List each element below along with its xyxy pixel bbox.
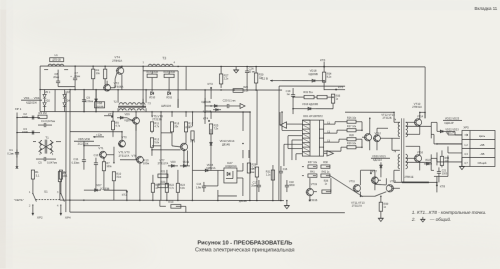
transistor VT19 <box>306 189 314 196</box>
label VT19 <box>311 182 318 186</box>
transformer T4 core <box>401 118 403 182</box>
junction at 84,112 <box>83 111 85 113</box>
resistor R30 <box>254 73 257 83</box>
transformer T3 <box>142 56 175 66</box>
label VT7 type <box>158 161 169 165</box>
svg-text:КТ8: КТ8 <box>440 184 445 188</box>
junction at 205,90 <box>204 89 206 91</box>
svg-text:2Т3117А: 2Т3117А <box>352 204 363 208</box>
svg-text:R24: R24 <box>185 126 190 129</box>
label КД202Ж <box>21 100 42 105</box>
svg-text:R21: R21 <box>161 169 166 173</box>
wire IC out3 <box>324 139 347 142</box>
resistor R18 <box>151 183 154 192</box>
wire KT8 drop <box>436 182 438 192</box>
junction at 419.8,112 <box>419 112 421 114</box>
wire VD13 lower <box>192 150 211 171</box>
label R31 <box>266 171 271 174</box>
capacitor C17 <box>251 180 261 192</box>
label R28t <box>243 86 248 89</box>
ground fb <box>284 206 289 209</box>
junction at 310,200.5 <box>309 200 311 202</box>
label R24 <box>185 126 190 129</box>
label R39 value <box>383 206 386 209</box>
wire bridge inner verticals <box>45 90 65 112</box>
resistor R42 <box>321 174 330 177</box>
resistor R20 <box>158 184 168 188</box>
transformer T1 <box>38 136 53 157</box>
junction at 140,200.5 <box>139 200 141 202</box>
wire mid v250 <box>249 112 251 200</box>
wire VT19 c <box>309 178 311 200</box>
label VT9 <box>190 139 196 143</box>
diode VD9 <box>168 160 178 168</box>
svg-text:VD22,VD23: VD22,VD23 <box>445 117 460 121</box>
label R16 <box>174 121 179 125</box>
wire misc2 <box>95 172 97 190</box>
capacitor C11 <box>72 152 86 170</box>
label R7 value <box>106 165 112 168</box>
wire rail112 right <box>345 111 394 113</box>
transistor VT11 <box>353 185 361 192</box>
label R20 <box>161 180 166 184</box>
wire T4 primary bot <box>394 170 400 182</box>
transformer T4 primary upper <box>393 118 400 136</box>
transistor VT17 <box>371 177 378 184</box>
svg-text:1500: 1500 <box>22 130 28 134</box>
test point KT8 <box>436 184 445 188</box>
label R43 <box>250 168 255 171</box>
connector XP4 <box>60 205 71 220</box>
capacitor C19 <box>286 88 296 104</box>
junction at 75,90 <box>74 89 76 91</box>
ground right driver <box>378 218 383 221</box>
junction at 70,90 <box>69 89 71 91</box>
svg-text:1000: 1000 <box>442 172 448 175</box>
test point KT2 <box>122 191 128 197</box>
capacitor C13 <box>94 153 99 172</box>
svg-text:R26 10к: R26 10к <box>347 117 357 120</box>
svg-text:0,33мк: 0,33мк <box>72 161 81 164</box>
junction at 273,200.5 <box>272 200 274 202</box>
label Д814Б <box>222 142 230 146</box>
diode VD17 <box>203 109 221 114</box>
wire output bottom rail <box>394 176 437 186</box>
svg-text:4,7: 4,7 <box>464 161 468 165</box>
wire KT6 stub <box>323 62 325 67</box>
svg-text:6800: 6800 <box>289 184 295 187</box>
label R34 value <box>327 76 332 79</box>
svg-text:Схема электрическая принципиал: Схема электрическая принципиальная <box>195 247 295 253</box>
svg-text:100к: 100к <box>106 165 112 168</box>
svg-text:АОД101А: АОД101А <box>225 164 237 168</box>
title line 1 <box>197 240 292 246</box>
svg-text:VD23: VD23 <box>425 160 431 162</box>
wire bridge mid vertical <box>54 90 56 112</box>
junction at 33,118 <box>32 117 34 119</box>
svg-text:"СЕТЬ": "СЕТЬ" <box>14 198 24 202</box>
resistor R36 <box>322 190 331 193</box>
svg-text:VD 1: VD 1 <box>45 91 51 94</box>
junction at 250,200.5 <box>249 200 251 202</box>
wire opto area <box>191 112 193 200</box>
junction at 152,112 <box>151 111 153 113</box>
label VT11 <box>349 179 356 183</box>
label +12в arrow <box>93 133 104 138</box>
wire center v3 <box>135 112 137 118</box>
resistor R41 <box>308 174 317 177</box>
transistor VT14 <box>414 119 422 126</box>
label R4 <box>96 68 100 72</box>
label 2Т3117А <box>119 154 130 158</box>
svg-text:R41: R41 <box>310 171 315 174</box>
wire center v11 <box>136 124 140 200</box>
svg-text:2Т312Б: 2Т312Б <box>382 116 391 120</box>
junction at 96,112 <box>95 111 97 113</box>
diode VD16 <box>201 100 221 108</box>
junction at 256,66.5 <box>255 66 257 68</box>
junction at 256,90 <box>255 89 257 91</box>
label R7 <box>106 161 110 165</box>
svg-text:Вкладка 11: Вкладка 11 <box>475 6 498 11</box>
solid winding bar <box>402 181 429 183</box>
resistor R33 <box>317 95 327 98</box>
resistor R22 <box>165 183 168 192</box>
svg-text:2ТВ41Е: 2ТВ41Е <box>404 176 413 179</box>
label R32 <box>303 90 313 94</box>
label R16 value <box>174 125 179 128</box>
wire center v9 <box>151 147 153 155</box>
resistor R10 <box>112 172 115 181</box>
diode VD2 <box>43 100 51 107</box>
label VT13 <box>390 179 397 183</box>
svg-text:С1: С1 <box>9 148 13 152</box>
junction at 113,112 <box>112 111 114 113</box>
svg-text:Х1м: Х1м <box>116 176 121 179</box>
label R40 value <box>445 160 449 163</box>
wire IC left verticals <box>280 112 296 166</box>
resistor R28r <box>347 138 356 141</box>
label R12 value <box>154 141 159 144</box>
wire IC in6 <box>288 147 302 149</box>
resistor R15 <box>164 74 174 77</box>
wire VT3 top <box>96 132 122 141</box>
junction at 105,66.5 <box>104 65 106 67</box>
svg-text:VD9: VD9 <box>125 112 131 116</box>
svg-text:КТ4: КТ4 <box>203 117 208 121</box>
junction at 221,90 <box>220 89 222 91</box>
wire left boundary vertical 2 <box>69 112 71 212</box>
svg-text:VT11: VT11 <box>349 179 356 183</box>
label R10 <box>116 172 121 176</box>
svg-text:VD9: VD9 <box>170 160 176 164</box>
wire IC in4 <box>292 139 302 141</box>
resistor R38 <box>321 165 330 168</box>
label 2ТВ41А small <box>404 176 413 179</box>
label R23 <box>180 184 185 187</box>
diode VD1 <box>43 91 51 98</box>
junction at 425,112 <box>424 112 426 114</box>
label R18 value <box>155 187 158 190</box>
junction at 118,90 <box>117 89 119 91</box>
svg-text:КД209Б: КД209Б <box>96 106 104 108</box>
resistor R24 <box>191 131 194 140</box>
wire IC in5 <box>284 143 302 145</box>
arrow into IC <box>280 122 287 128</box>
junction at 324,66.5 <box>323 66 325 68</box>
svg-text:С5: С5 <box>38 160 42 164</box>
svg-text:VT1: VT1 <box>98 146 104 150</box>
wire VT16 wiring <box>406 146 420 170</box>
svg-text:2Т3117А: 2Т3117А <box>119 154 130 158</box>
wire T1 to switch left <box>33 141 36 143</box>
svg-text:2Т3117А: 2Т3117А <box>158 161 169 165</box>
junction at 250,112 <box>249 111 251 113</box>
junction at 362,147 <box>361 146 363 148</box>
wire R2 to S1 <box>60 179 62 193</box>
label R29 <box>347 142 357 145</box>
label R8 <box>62 171 66 175</box>
label VD20 VD21 <box>371 154 390 161</box>
transistor VT1 <box>99 151 106 158</box>
resistor R3 <box>38 111 47 118</box>
resistor R39 <box>379 202 382 211</box>
svg-text:−6В: −6В <box>480 152 485 156</box>
svg-text:110: 110 <box>445 160 449 163</box>
junction at 369.8,118 <box>369 117 371 119</box>
wire sec to connector top <box>431 122 462 135</box>
svg-text:ХР 1: ХР 1 <box>15 107 22 111</box>
svg-text:2ТВ41А: 2ТВ41А <box>412 105 422 109</box>
resistor R12 <box>150 138 153 148</box>
junction at 84,200.5 <box>83 199 85 201</box>
junction at 360.6,196 <box>360 195 362 197</box>
transistor VT16 <box>414 155 422 162</box>
wire T3 frame <box>143 66 178 71</box>
resistor R31 <box>271 170 274 180</box>
svg-text:Рисунок 10 - ПРЕОБРАЗОВАТЕЛЬ: Рисунок 10 - ПРЕОБРАЗОВАТЕЛЬ <box>197 240 292 246</box>
resistor R11 <box>150 122 153 132</box>
diode VD8 <box>95 90 105 112</box>
label R9 <box>115 121 119 125</box>
label R26t value <box>224 78 229 81</box>
caption Вкладка 11 <box>475 6 498 11</box>
svg-text:С16: С16 <box>283 168 288 171</box>
label R34 <box>327 72 332 76</box>
wire center v6 <box>185 112 187 117</box>
test point KT4 <box>203 117 210 122</box>
label R2 value <box>64 174 68 178</box>
wire R19 leads <box>160 205 186 207</box>
junction at 437,143.5 <box>436 143 438 145</box>
resistor R27 <box>347 129 356 132</box>
wire R39 leads <box>380 196 382 218</box>
svg-text:R27 10к: R27 10к <box>347 125 357 128</box>
junction at 247,66.5 <box>246 66 248 68</box>
svg-text:КД212Р: КД212Р <box>444 121 454 125</box>
svg-text:VT16: VT16 <box>417 152 424 155</box>
svg-text:КТ6: КТ6 <box>320 58 325 62</box>
svg-text:100ж: 100ж <box>143 161 149 165</box>
label R28c <box>252 163 257 167</box>
svg-text:VD8: VD8 <box>97 101 103 105</box>
svg-text:С4 0,047мк: С4 0,047мк <box>41 119 56 123</box>
svg-text:5,1: 5,1 <box>36 174 40 178</box>
svg-text:VT12: VT12 <box>374 131 381 135</box>
wire IC in1 <box>287 123 303 125</box>
junction at 93,66.5 <box>92 65 94 67</box>
junction at 211,106 <box>210 105 212 107</box>
label Ш10х10 <box>161 104 171 108</box>
label VT2 <box>114 81 120 85</box>
diagonal wire to VT11 <box>330 176 363 197</box>
label pin c1 <box>327 122 331 125</box>
label ДЛ1БМ <box>239 199 247 203</box>
svg-text:Т3: Т3 <box>162 56 166 60</box>
svg-text:КТ3: КТ3 <box>208 82 213 86</box>
wire R9 col <box>112 112 114 137</box>
svg-text:ХР4: ХР4 <box>65 216 71 220</box>
wire VT13 c <box>386 178 400 188</box>
wire center v2 <box>95 90 97 112</box>
resistor R28t <box>233 89 243 93</box>
label R36 value <box>325 183 328 186</box>
junction at 104,158.4 <box>103 157 105 159</box>
wire bottom bus <box>70 199 284 201</box>
junction at 75,66.5 <box>74 65 76 67</box>
label VT12 type <box>382 116 391 120</box>
label +12 V arrow <box>260 76 282 81</box>
wire IC out1 <box>324 122 347 125</box>
svg-text:КТ7: КТ7 <box>372 169 377 173</box>
wire mid h3 <box>205 111 250 113</box>
diode VD13 <box>210 138 213 150</box>
wire IC out2 <box>324 130 347 133</box>
resistor R17 <box>184 122 187 132</box>
wire top rail right drop <box>424 67 426 118</box>
label R11 value <box>154 125 159 128</box>
label VT10 type <box>412 105 422 109</box>
wire center v10 <box>183 150 185 165</box>
junction at 121.8,66.5 <box>121 65 123 67</box>
wire center vline160 <box>160 112 162 200</box>
arrow out of IC <box>324 151 334 156</box>
label R26 <box>347 117 357 120</box>
junction at 178,200.5 <box>177 200 179 202</box>
wire center v1 <box>83 90 85 112</box>
label VD1-VD4 <box>24 96 40 100</box>
label 2Т213Б <box>152 117 162 121</box>
junction at 70,200.5 <box>69 199 71 201</box>
wire bridge frame <box>40 90 70 112</box>
svg-text:Т2: Т2 <box>113 100 117 104</box>
svg-text:С11: С11 <box>73 157 78 161</box>
junction at 84,146 <box>83 145 85 147</box>
label VT11 VT13 <box>351 201 365 205</box>
label R14 <box>146 70 158 74</box>
wire VT11 links <box>360 170 385 185</box>
label VT14 <box>417 115 424 118</box>
wire R43 bot <box>256 177 258 200</box>
label VT2 type <box>114 85 124 89</box>
label R30 <box>259 73 264 77</box>
resistor R32 <box>304 95 314 98</box>
wire VT9 base <box>152 149 181 151</box>
wire XP1 row2 <box>17 132 40 134</box>
junction at 394,112 <box>393 112 395 114</box>
wire top rail <box>40 65 425 68</box>
test point KT7 <box>370 169 377 174</box>
svg-text:VD10: VD10 <box>149 96 156 99</box>
svg-text:Д814Б: Д814Б <box>239 199 247 203</box>
svg-text:2ТВ41А: 2ТВ41А <box>112 59 122 63</box>
diode VD9b <box>117 112 134 122</box>
label VT12 VT14 <box>381 113 395 117</box>
wire mid v202 <box>242 112 244 131</box>
resistor R34 <box>322 72 325 82</box>
svg-text:КД209В: КД209В <box>308 72 318 76</box>
resistor R7 <box>102 162 105 171</box>
capacitor C1 <box>7 148 19 158</box>
wire sec bot2 <box>431 155 448 176</box>
wire sec bottom <box>431 152 437 165</box>
wire sec mid <box>431 134 462 144</box>
label R40 <box>445 157 450 160</box>
wire sec join <box>406 122 432 138</box>
resistor R26t <box>219 74 222 84</box>
label R19 <box>168 200 173 204</box>
ground output <box>459 166 464 169</box>
label VT12 <box>374 131 381 135</box>
wire fb wires2 <box>293 103 333 109</box>
transformer T2 secondary <box>119 109 144 111</box>
label R15 <box>163 70 175 74</box>
junction at 152,150 <box>151 149 153 151</box>
svg-text:+12 В: +12 В <box>260 76 268 80</box>
label R1 value <box>36 174 40 178</box>
label R21 <box>161 169 166 173</box>
wire KT5 row <box>324 89 345 91</box>
transistor VT15 <box>373 135 380 142</box>
wire center h116 <box>104 116 136 131</box>
svg-text:R28: R28 <box>349 134 354 137</box>
transistor VT3 <box>118 140 125 147</box>
junction at 192.5,200.5 <box>192 200 194 202</box>
label R42 <box>322 171 331 174</box>
svg-text:S1: S1 <box>44 190 48 194</box>
svg-text:Цепь: Цепь <box>479 134 486 138</box>
svg-text:ХР2: ХР2 <box>37 216 43 220</box>
junction at 122,132 <box>121 131 123 133</box>
label R13 value <box>143 161 149 165</box>
junction at 184,150.6 <box>183 150 185 152</box>
wire center h146 <box>152 133 172 146</box>
resistor R28c <box>247 163 250 173</box>
svg-text:VD11: VD11 <box>166 96 173 99</box>
junction at 96,90 <box>95 89 97 91</box>
label СЕТЬ <box>14 198 24 202</box>
inductor L1 <box>48 53 64 66</box>
svg-text:R19: R19 <box>168 200 173 204</box>
transistor VT13 <box>386 185 394 192</box>
label R17 value <box>188 125 193 128</box>
label VT5 VT8 <box>151 114 163 118</box>
wire mid rail <box>40 89 282 92</box>
wire XP1 row1 <box>17 117 40 119</box>
wire VD9 link <box>112 117 133 121</box>
junction at 281,200.5 <box>280 200 282 202</box>
transistor VT9 <box>180 143 188 150</box>
